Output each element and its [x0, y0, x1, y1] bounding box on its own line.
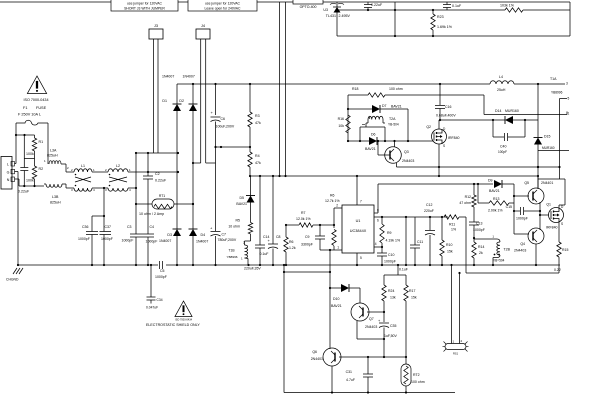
junction: [473, 264, 475, 266]
svg-text:C10: C10: [388, 253, 394, 257]
resistor R17 15k: [404, 275, 417, 357]
junction: [441, 216, 443, 266]
svg-text:R6: R6: [289, 240, 294, 244]
svg-text:6: 6: [377, 219, 379, 223]
svg-text:2N4403: 2N4403: [365, 325, 377, 329]
svg-text:D: D: [561, 205, 564, 209]
warning symbol (shield): [146, 301, 200, 327]
wire: gate drive: [540, 214, 549, 216]
wire: D3 to ground rail: [176, 236, 178, 265]
svg-text:0.1uF: 0.1uF: [452, 4, 462, 8]
wire: D1 column top: [176, 84, 178, 104]
wire: R24/R17 feed: [384, 265, 406, 275]
wire: primary ground rail: [18, 264, 560, 266]
wire: pin 6 output line: [374, 217, 448, 223]
svg-text:D5: D5: [240, 196, 245, 200]
junction: [558, 166, 560, 168]
junction: [91, 215, 105, 266]
svg-text:1000pF: 1000pF: [516, 217, 528, 221]
warning symbol ISO 7000-0434: [23, 76, 48, 102]
wire: T1 primary lead 1: [279, 2, 281, 176]
svg-text:2k: 2k: [479, 251, 483, 255]
svg-text:4.19k 1%: 4.19k 1%: [386, 239, 401, 243]
svg-text:0.22uF: 0.22uF: [18, 190, 30, 194]
svg-text:10k: 10k: [338, 124, 344, 128]
svg-text:3300pF: 3300pF: [301, 243, 313, 247]
svg-text:1000pF: 1000pF: [101, 237, 113, 241]
junction: [438, 166, 539, 168]
wire: D7 to gate node: [407, 109, 409, 141]
wire: N line: [19, 185, 44, 187]
svg-text:5: 5: [360, 256, 362, 260]
junction: [356, 175, 358, 177]
svg-text:RT1: RT1: [159, 194, 165, 198]
wire: Q3 base: [378, 141, 390, 155]
svg-text:CHGND: CHGND: [6, 278, 19, 282]
resistor R12 47 ohm: [459, 184, 476, 207]
wire: Q4 collector to gnd: [535, 244, 537, 265]
diode D15 MUR160: [534, 120, 555, 188]
svg-text:R12: R12: [465, 195, 471, 199]
svg-text:1.2k: 1.2k: [289, 246, 296, 250]
wire: pin 4 stub: [374, 242, 382, 247]
svg-text:T2B: T2B: [504, 248, 511, 252]
svg-text:ELECTROSTATIC SHIELD ONLY: ELECTROSTATIC SHIELD ONLY: [146, 323, 200, 327]
svg-text:R17: R17: [409, 289, 415, 293]
junction: [214, 264, 216, 266]
wire: L2 top out to bridge: [128, 171, 177, 173]
junction: [329, 287, 331, 289]
wire: G pin to chassis: [15, 172, 19, 266]
wire: pin 7 stub: [357, 177, 362, 205]
svg-text:U3: U3: [323, 8, 328, 12]
resistor R24 13k: [382, 275, 396, 312]
svg-text:BAV21: BAV21: [365, 147, 376, 151]
wire: R18 node: [348, 94, 368, 96]
wire: L1 to L2 bottom: [92, 187, 108, 189]
svg-text:R18: R18: [352, 87, 358, 91]
svg-text:1N4007: 1N4007: [183, 75, 195, 79]
junction: [331, 391, 333, 393]
svg-text:2.495V: 2.495V: [339, 14, 351, 18]
svg-text:Q4: Q4: [520, 242, 525, 246]
diode D7 BAV21: [348, 104, 408, 113]
svg-text:F1: F1: [23, 106, 27, 110]
wire: L pin to fuse: [15, 123, 17, 164]
wire: Q3 collector line: [397, 163, 560, 167]
resistor R2 100k: [26, 151, 43, 186]
wire: right end of top rails: [569, 2, 571, 36]
transistor Q3 2N4403: [385, 147, 415, 164]
wire: base feed: [514, 196, 529, 234]
junction: [367, 356, 407, 358]
svg-text:1N4007: 1N4007: [159, 239, 171, 243]
svg-text:1uF,50V: 1uF,50V: [384, 334, 398, 338]
mosfet Q2 IRF840: [426, 125, 459, 148]
svg-text:1000pF: 1000pF: [122, 239, 134, 243]
svg-text:103k 1%: 103k 1%: [500, 4, 515, 8]
svg-text:BAV21: BAV21: [391, 105, 402, 109]
junction: [397, 264, 399, 266]
junction: [492, 119, 526, 121]
junction: [405, 216, 407, 266]
svg-text:U1: U1: [356, 219, 361, 223]
svg-text:D2: D2: [179, 99, 184, 103]
svg-text:R9: R9: [387, 231, 392, 235]
svg-text:BAV21: BAV21: [331, 304, 342, 308]
resistor R16 10k: [338, 115, 351, 133]
wire: TL431 anode down: [336, 13, 338, 37]
svg-text:C11: C11: [417, 240, 423, 244]
diode D9 BAV21: [478, 179, 514, 194]
svg-text:1: 1: [241, 257, 243, 261]
svg-text:C9: C9: [305, 235, 310, 239]
svg-text:D14: D14: [495, 109, 501, 113]
svg-text:TL431: TL431: [326, 14, 336, 18]
capacitor C13 1000pF: [469, 207, 485, 238]
junction: [450, 264, 452, 266]
junction: [414, 264, 416, 266]
svg-text:YB=504: YB=504: [493, 259, 505, 263]
wire: doubler midpoint rail: [216, 146, 251, 148]
svg-text:C16: C16: [445, 105, 451, 109]
svg-text:Q3: Q3: [404, 150, 409, 154]
svg-text:+: +: [210, 226, 213, 231]
wire: L1 to L2 top: [92, 171, 108, 173]
svg-text:D7: D7: [382, 104, 387, 108]
svg-text:1N4007: 1N4007: [196, 240, 208, 244]
transistor Q6 2N4401: [311, 348, 341, 366]
junction: [438, 175, 440, 177]
svg-text:1: 1: [337, 246, 339, 250]
capacitor C11 0.1uF: [399, 217, 423, 272]
wire: pin1 down to Q6 circuit: [329, 250, 331, 349]
svg-text:2: 2: [336, 204, 338, 208]
svg-text:R6: R6: [330, 194, 335, 198]
svg-text:Q1: Q1: [546, 203, 551, 207]
junction: [458, 272, 460, 274]
resistor R3 47k: [248, 84, 261, 147]
junction: [249, 83, 251, 85]
connector J4: [196, 24, 210, 39]
svg-text:825uH: 825uH: [47, 154, 58, 158]
svg-text:R5: R5: [236, 219, 241, 223]
wire: N pin: [15, 179, 20, 186]
inductor L3A 825uH: [44, 149, 74, 173]
junction: [192, 203, 194, 205]
svg-text:100k: 100k: [26, 152, 34, 156]
junction: [383, 311, 385, 313]
capacitor C4 1000pF: [142, 225, 157, 265]
svg-text:Leave open for 240VAC: Leave open for 240VAC: [205, 6, 241, 10]
svg-text:Q6: Q6: [312, 350, 317, 354]
svg-text:D15: D15: [544, 135, 550, 139]
svg-text:10 ohm: 10 ohm: [228, 225, 240, 229]
svg-text:R7: R7: [301, 211, 306, 215]
shunt regulator U3 TL431: [323, 3, 350, 18]
svg-text:1: 1: [568, 112, 570, 116]
junction: [377, 140, 379, 142]
capacitor C36 1000pF: [78, 216, 104, 265]
wire: HV+ rail: [177, 83, 490, 85]
wire: D15 top tap: [537, 84, 539, 120]
mosfet Q1 IRF840: [546, 203, 564, 230]
wire: pin 8 via vcc: [374, 184, 379, 213]
wire: Q7 emitter: [357, 321, 384, 339]
junction: [283, 264, 285, 266]
svg-text:100pF: 100pF: [498, 150, 507, 154]
connector J1 (L G N): [1, 157, 15, 190]
capacitor C6 100uF,200V: [211, 84, 235, 163]
svg-text:YB8996: YB8996: [227, 255, 238, 259]
svg-text:+: +: [378, 319, 381, 323]
wire: J4 pin 2: [206, 39, 216, 163]
svg-text:1N4007: 1N4007: [162, 75, 174, 79]
junction: [405, 391, 407, 393]
capacitor C5 1000pF: [155, 261, 167, 279]
wire: T1A pin 4 line: [538, 150, 569, 152]
diode D2 1N4007: [179, 75, 197, 112]
winding T1B: [227, 245, 249, 265]
svg-text:F 250V 10A L: F 250V 10A L: [18, 113, 41, 117]
svg-text:1000pF: 1000pF: [473, 228, 485, 232]
wire: snubber rail: [440, 119, 493, 121]
junction: [381, 264, 383, 266]
wire: L2 bottom jog: [128, 187, 136, 189]
svg-text:7: 7: [360, 200, 362, 204]
svg-text:12.7k 1%: 12.7k 1%: [325, 199, 340, 203]
capacitor C12 220uF: [424, 203, 435, 265]
svg-text:100k: 100k: [26, 179, 34, 183]
svg-text:15k: 15k: [447, 250, 453, 254]
wire: R11 down to sense bus: [465, 217, 467, 273]
svg-text:1.69k 1%: 1.69k 1%: [437, 25, 453, 29]
junction: [150, 264, 152, 266]
svg-text:0.68uF,400V: 0.68uF,400V: [436, 114, 456, 118]
capacitor C40 100pF: [493, 120, 525, 154]
junction: [319, 224, 335, 226]
svg-text:C2: C2: [155, 172, 160, 176]
capacitor C7 780uF,200V: [210, 163, 237, 265]
junction: [394, 9, 396, 37]
resistor R10 15k: [440, 217, 453, 265]
svg-text:1000pF: 1000pF: [384, 260, 396, 264]
svg-text:C7: C7: [222, 233, 227, 237]
svg-text:S: S: [561, 222, 563, 226]
wire: C1 tap to divider: [24, 158, 34, 160]
capacitor 0.22uF (top): [364, 2, 383, 10]
ground CHGND: [6, 268, 23, 282]
note box 1 (120VAC jumper): [111, 0, 178, 11]
diode D10 BAV21: [330, 284, 360, 308]
svg-text:S: S: [443, 144, 445, 148]
svg-text:0.1uF: 0.1uF: [399, 268, 408, 272]
resistor R5 10 ohm: [228, 203, 252, 235]
svg-text:MUR160: MUR160: [505, 109, 519, 113]
junction: [283, 271, 331, 273]
svg-text:2: 2: [105, 168, 107, 172]
svg-text:D1: D1: [162, 99, 167, 103]
transformer T2B: [493, 239, 511, 265]
resistor R9 4.19k 1%: [380, 217, 400, 247]
transistor Q7 2N4403: [351, 303, 377, 329]
capacitor C35 1uF,50V: [378, 312, 398, 357]
svg-text:R10: R10: [446, 243, 452, 247]
svg-text:1: 1: [492, 235, 494, 239]
thermistor RT2 100 ohm: [401, 357, 425, 393]
resistor R13 2.00k 1%: [478, 184, 514, 213]
svg-text:D10: D10: [333, 297, 339, 301]
svg-text:RT2: RT2: [413, 373, 420, 377]
capacitor C2 0.22uF: [143, 153, 167, 234]
svg-text:L3A: L3A: [50, 149, 57, 153]
junction: [272, 175, 274, 266]
wire: J3 pin 2: [157, 39, 159, 153]
wire: left leg: [347, 95, 349, 141]
svg-text:780uF,200V: 780uF,200V: [218, 238, 237, 242]
svg-text:C35: C35: [390, 324, 396, 328]
surge suppressor RS1: [443, 339, 469, 356]
connector J3: [149, 24, 163, 39]
junction: [147, 264, 149, 266]
wire: pin 5 stub: [357, 253, 362, 265]
svg-text:3: 3: [71, 188, 73, 192]
svg-text:J4: J4: [201, 24, 205, 28]
diode D4 1N4007: [189, 229, 209, 244]
junction: [176, 264, 178, 266]
junction: [135, 203, 137, 266]
svg-text:2N4401: 2N4401: [541, 181, 553, 185]
resistor R6 1.2k: [284, 225, 296, 265]
wire: Q6 base line: [339, 356, 406, 358]
svg-text:T2A: T2A: [389, 117, 396, 121]
svg-text:J3: J3: [154, 24, 158, 28]
svg-text:R15: R15: [562, 248, 568, 252]
svg-text:220uF,35V: 220uF,35V: [244, 267, 261, 271]
svg-text:2: 2: [71, 168, 73, 172]
transformer T1A pins: [550, 77, 570, 179]
resistor R1 100k: [26, 135, 43, 156]
junction: [17, 264, 19, 266]
svg-text:R14: R14: [478, 245, 484, 249]
svg-text:R23: R23: [437, 15, 444, 19]
junction: [473, 237, 475, 239]
svg-text:C3: C3: [127, 225, 132, 229]
wire: T1 primary lead 2: [285, 2, 287, 176]
wire: jumper line J3: [136, 152, 178, 154]
junction: [537, 83, 539, 85]
note box 2 (240VAC): [188, 0, 257, 11]
svg-text:0.1uF: 0.1uF: [260, 252, 269, 256]
capacitor C37 1000pF: [100, 188, 113, 265]
inductor L3B 825uH: [44, 184, 74, 205]
junction: [383, 338, 385, 358]
svg-text:L1: L1: [81, 164, 85, 168]
wire: Q7 base: [367, 311, 384, 313]
svg-text:C40: C40: [500, 145, 506, 149]
junction: [259, 175, 261, 266]
svg-text:RS1: RS1: [453, 352, 459, 356]
junction: [285, 224, 287, 266]
junction: [381, 216, 383, 248]
transistor Q4 2N4403: [514, 228, 544, 253]
svg-text:R16: R16: [338, 117, 344, 121]
junction: [439, 83, 441, 121]
wire: top feedback rail: [338, 9, 570, 11]
wire: R18 corner to T1A: [435, 95, 567, 115]
svg-text:R4: R4: [255, 154, 260, 158]
svg-text:Q5: Q5: [524, 181, 529, 185]
svg-text:1%: 1%: [451, 228, 456, 232]
svg-text:R13: R13: [493, 197, 499, 201]
svg-text:C34: C34: [157, 298, 163, 302]
svg-text:C6: C6: [221, 117, 226, 121]
svg-text:BAV21: BAV21: [236, 202, 247, 206]
wire: sense lead 1: [451, 265, 453, 344]
wire: D1/D3 midpoint: [176, 111, 178, 229]
svg-text:IRF840: IRF840: [448, 136, 460, 140]
svg-text:UC3844X: UC3844X: [350, 229, 367, 233]
wire: to T2B pin 1: [474, 235, 497, 240]
svg-text:0.22uF: 0.22uF: [155, 179, 167, 183]
svg-text:2: 2: [67, 166, 69, 170]
svg-text:C37: C37: [105, 225, 111, 229]
wire: current sense bus: [466, 272, 559, 274]
junction: [214, 83, 216, 148]
svg-text:15k: 15k: [411, 296, 417, 300]
junction: [429, 216, 431, 266]
junction: [347, 108, 349, 110]
svg-text:MUR160: MUR160: [542, 146, 555, 150]
thermistor RT1: [136, 194, 193, 216]
svg-text:Q7: Q7: [369, 317, 374, 321]
svg-text:12.0k 1%: 12.0k 1%: [296, 217, 311, 221]
svg-text:0.22: 0.22: [554, 268, 561, 272]
svg-text:T1B: T1B: [229, 249, 236, 253]
junction: [247, 264, 249, 266]
svg-text:C5: C5: [160, 269, 165, 273]
svg-text:+: +: [211, 110, 214, 115]
svg-text:0.22uF: 0.22uF: [371, 3, 383, 7]
wire: L4 to T1A pin 3: [514, 83, 565, 85]
inductor L4 25uH: [490, 75, 514, 92]
resistor R4 47k: [248, 147, 261, 176]
junction: [356, 264, 358, 266]
svg-text:4.7uF: 4.7uF: [346, 378, 355, 382]
junction: [135, 152, 179, 173]
wire: TL431 cathode: [336, 2, 338, 7]
svg-text:L3B: L3B: [52, 195, 59, 199]
junction: [15, 134, 26, 136]
wire: Q1 drain: [538, 179, 565, 208]
svg-text:100 ohm: 100 ohm: [389, 87, 403, 91]
svg-text:C12: C12: [426, 203, 432, 207]
wire: ct/rt vertical: [405, 217, 407, 265]
transformer T2A: [360, 116, 399, 141]
svg-text:D: D: [443, 127, 446, 131]
svg-text:L2: L2: [116, 164, 120, 168]
wire: J4 pin 1: [194, 39, 201, 163]
resistor R15 0.22: [554, 242, 568, 273]
fuse F1: [16, 106, 48, 125]
svg-text:10 ohm / 2 Amp: 10 ohm / 2 Amp: [139, 212, 164, 216]
svg-text:OPTO-400: OPTO-400: [300, 5, 317, 9]
diode D6 BAV21: [365, 133, 377, 152]
common-mode choke L1: [71, 164, 95, 192]
capacitor C9 3300pF: [301, 225, 325, 250]
svg-text:1000pF: 1000pF: [146, 240, 158, 244]
resistor R18 100 ohm: [352, 87, 435, 97]
